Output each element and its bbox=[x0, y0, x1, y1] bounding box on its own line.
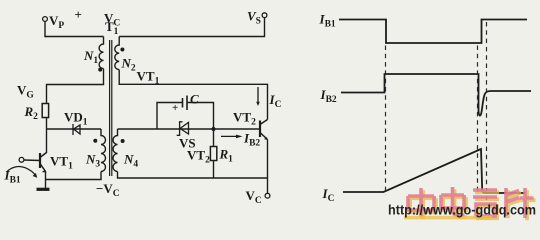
glyph 4 bbox=[506, 188, 534, 218]
ground bbox=[37, 188, 50, 191]
IC current arrow schematic bbox=[257, 87, 259, 103]
waveform IC bbox=[343, 149, 525, 193]
resistor R1 bbox=[213, 129, 215, 147]
glyph 1 bbox=[408, 188, 434, 217]
watermark underline strip bbox=[404, 216, 492, 220]
waveform IB1 bbox=[339, 20, 527, 44]
glyph 3 bbox=[473, 190, 497, 216]
waveform panel bbox=[339, 20, 531, 194]
wire N4 bottom rail bbox=[118, 172, 268, 179]
IB2 current arrow bbox=[221, 135, 239, 137]
node dot junction bbox=[211, 127, 215, 131]
winding N2 bbox=[115, 37, 119, 70]
emitter arrowhead VT2 bbox=[264, 137, 268, 140]
watermark graphic glyphs bbox=[410, 189, 536, 220]
transformer T1 core bbox=[109, 40, 111, 176]
dashed timing line left bbox=[385, 46, 387, 196]
base bar bbox=[39, 153, 41, 168]
wire N1 bottom to VG corner bbox=[47, 69, 104, 104]
glyph 2 bbox=[441, 187, 465, 215]
svg-text:+: + bbox=[172, 102, 178, 114]
wire emitter down to ground bbox=[45, 172, 47, 189]
emitter diagonal bbox=[40, 164, 46, 172]
node dot N4 bbox=[121, 139, 125, 143]
winding N4 bbox=[113, 129, 118, 172]
svg-text:http://www.go-gddq.com: http://www.go-gddq.com bbox=[388, 203, 536, 218]
dashed timing line right B bbox=[486, 22, 488, 200]
collector diagonal bbox=[40, 153, 47, 158]
wire VD1 branch bbox=[47, 128, 102, 130]
transistor VT2 bbox=[260, 120, 268, 140]
diode VD1 bbox=[73, 124, 80, 135]
capacitor branch riser right bbox=[187, 103, 214, 128]
wire top-left rail to N1 bbox=[45, 36, 104, 38]
waveform IB2 bbox=[341, 74, 531, 116]
capacitor branch riser left bbox=[157, 103, 183, 130]
zener VS bbox=[180, 122, 189, 135]
wire N2 top rail to VS terminal bbox=[119, 18, 264, 37]
terminal VC bbox=[265, 193, 270, 198]
wire N2 bottom to VT2 collector bbox=[119, 70, 267, 120]
winding N1 bbox=[99, 37, 103, 69]
wire N4 top to VT2 base bbox=[118, 128, 260, 130]
terminal VP bbox=[43, 17, 48, 22]
node dot N2 bbox=[120, 48, 124, 52]
wire VP down to top rail bbox=[45, 21, 47, 36]
capacitor C plates bbox=[182, 98, 184, 108]
labels waveforms bbox=[319, 12, 337, 205]
transistor VT1 bbox=[40, 153, 47, 172]
node dot N1 bbox=[98, 68, 102, 72]
terminal VS bbox=[262, 13, 267, 18]
emitter arrowhead VT1 bbox=[43, 171, 46, 172]
svg-text:C: C bbox=[190, 92, 199, 107]
dashed timing line right A bbox=[477, 46, 479, 196]
resistor R2 bbox=[42, 104, 48, 118]
node dot N3 bbox=[93, 139, 97, 143]
collector diagonal bbox=[260, 120, 268, 125]
wire R2 to VD1 tee to VT1 collector bbox=[46, 118, 48, 154]
svg-text:+: + bbox=[75, 7, 82, 22]
IB1 current arrow bbox=[7, 167, 36, 176]
wire base VT1 bbox=[24, 159, 40, 162]
winding N3 bbox=[101, 129, 106, 172]
base bar bbox=[259, 121, 261, 138]
labels schematic bbox=[4, 7, 282, 206]
wire N3 bottom to emitter rail bbox=[46, 172, 102, 180]
wire VT2 emitter to VC terminal bbox=[267, 140, 269, 194]
terminal IB1 bbox=[19, 157, 24, 162]
emitter diagonal bbox=[260, 133, 268, 140]
